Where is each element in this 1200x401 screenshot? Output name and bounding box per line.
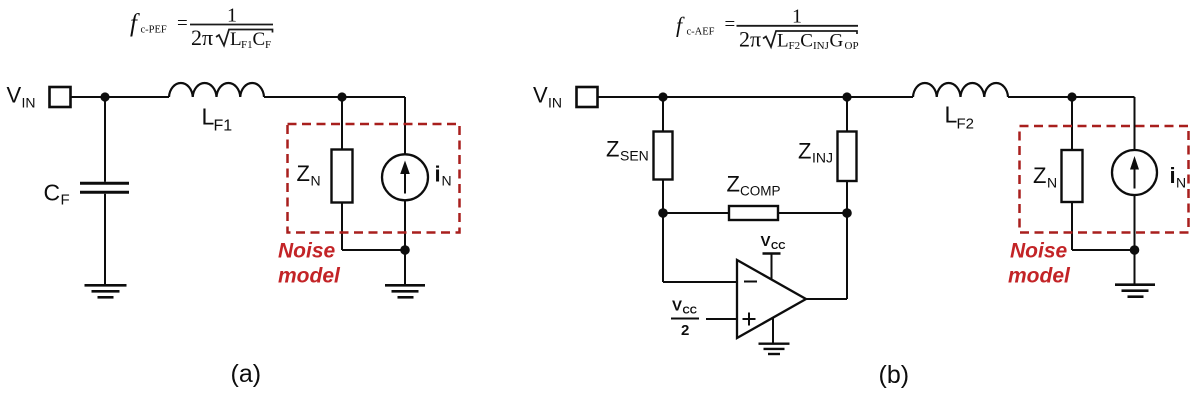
svg-text:(a): (a) xyxy=(231,360,262,388)
svg-text:N: N xyxy=(1176,175,1186,191)
svg-text:1: 1 xyxy=(792,5,802,27)
svg-text:N: N xyxy=(311,173,321,189)
svg-text:Z: Z xyxy=(606,137,619,162)
svg-text:V: V xyxy=(761,233,771,250)
svg-text:2π: 2π xyxy=(191,25,213,50)
svg-text:i: i xyxy=(1170,163,1176,188)
svg-text:2: 2 xyxy=(681,322,689,339)
svg-text:Z: Z xyxy=(798,139,811,164)
svg-text:V: V xyxy=(672,298,682,315)
svg-text:OP: OP xyxy=(845,40,859,52)
svg-text:C: C xyxy=(800,31,813,52)
svg-text:model: model xyxy=(1008,265,1071,288)
svg-text:F1: F1 xyxy=(214,118,233,135)
svg-text:COMP: COMP xyxy=(740,184,781,199)
svg-text:F1: F1 xyxy=(241,39,253,51)
svg-text:(b): (b) xyxy=(879,361,910,389)
svg-text:=: = xyxy=(177,13,188,34)
svg-text:f: f xyxy=(676,13,685,38)
svg-text:f: f xyxy=(130,10,140,37)
svg-text:model: model xyxy=(278,265,341,288)
svg-text:V: V xyxy=(533,83,548,108)
svg-text:1: 1 xyxy=(227,4,237,26)
svg-text:F: F xyxy=(61,192,70,209)
svg-text:F2: F2 xyxy=(789,40,801,52)
svg-text:INJ: INJ xyxy=(812,150,833,166)
svg-text:F: F xyxy=(265,39,271,51)
svg-text:C: C xyxy=(44,180,61,206)
svg-text:L: L xyxy=(777,31,789,52)
svg-text:C: C xyxy=(253,29,266,50)
svg-text:V: V xyxy=(7,83,22,108)
svg-text:c-PEF: c-PEF xyxy=(141,25,167,36)
svg-text:INJ: INJ xyxy=(813,40,830,52)
svg-text:N: N xyxy=(442,173,452,189)
svg-text:CC: CC xyxy=(683,306,697,317)
svg-text:Z: Z xyxy=(727,172,740,197)
svg-text:Z: Z xyxy=(297,161,310,186)
svg-text:Noise: Noise xyxy=(278,240,336,263)
svg-text:N: N xyxy=(1047,175,1057,191)
svg-text:IN: IN xyxy=(548,95,562,111)
svg-text:G: G xyxy=(830,31,844,52)
svg-text:=: = xyxy=(725,14,736,35)
svg-text:F2: F2 xyxy=(957,116,975,133)
svg-text:SEN: SEN xyxy=(620,148,649,164)
svg-text:CC: CC xyxy=(771,241,785,252)
svg-text:L: L xyxy=(230,29,242,50)
svg-text:i: i xyxy=(435,162,441,187)
svg-text:IN: IN xyxy=(22,95,36,111)
svg-text:Noise: Noise xyxy=(1010,240,1068,263)
svg-text:c-AEF: c-AEF xyxy=(687,27,715,38)
svg-text:2π: 2π xyxy=(739,27,761,52)
svg-text:Z: Z xyxy=(1033,163,1046,188)
